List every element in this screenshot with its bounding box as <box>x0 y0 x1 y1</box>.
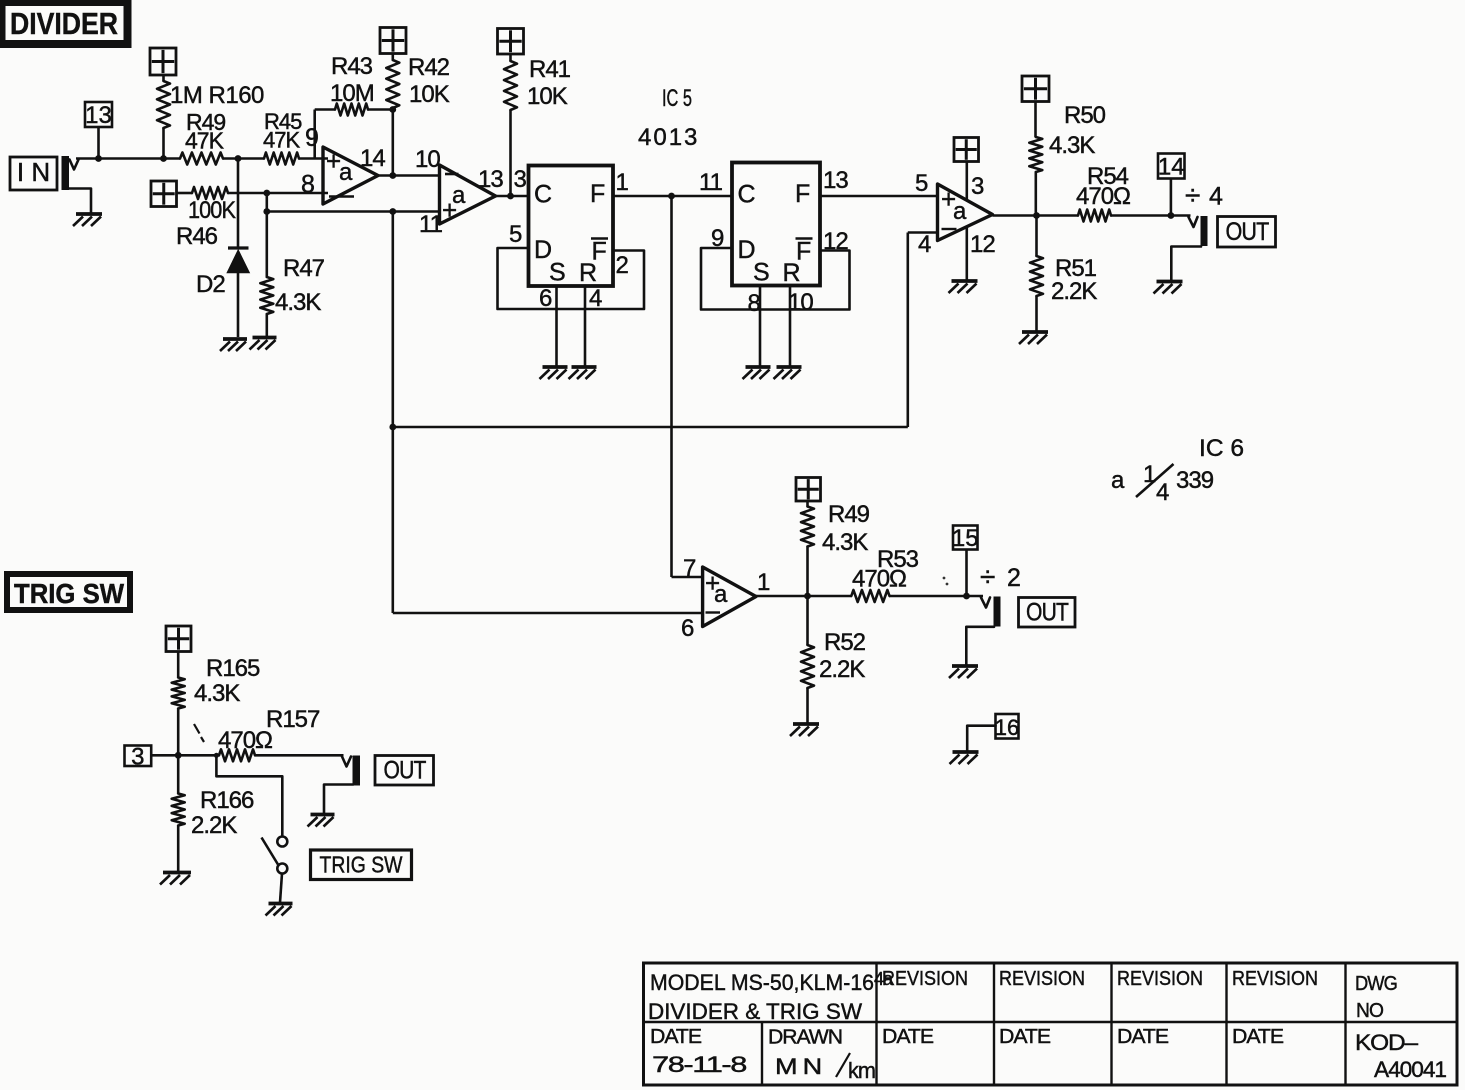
wire (pin3 to node) <box>151 754 219 757</box>
svg-text:S: S <box>753 259 769 287</box>
svg-text:NO: NO <box>1356 999 1383 1022</box>
svg-text:TRIG SW: TRIG SW <box>320 852 403 878</box>
wire (pin 13 stem) <box>97 127 100 159</box>
wire (pin 15 stem) <box>965 550 968 597</box>
wire (+V to R46) <box>177 192 193 195</box>
svg-text:a: a <box>1111 467 1125 494</box>
wire (U3 ground stem) <box>965 227 968 281</box>
resistor R54 470ohm (horizontal) <box>1078 210 1111 222</box>
svg-text:4.3K: 4.3K <box>194 680 240 707</box>
svg-text:KOD–: KOD– <box>1355 1030 1419 1055</box>
svg-text:REVISION: REVISION <box>882 968 968 990</box>
svg-text:4.3K: 4.3K <box>1049 132 1095 159</box>
wire (J3 sleeve to ground) <box>324 785 353 814</box>
svg-text:2.2K: 2.2K <box>819 656 865 683</box>
node label DIVIDER (section title) <box>2 2 128 44</box>
svg-text:F: F <box>795 180 810 208</box>
label R47 <box>275 255 325 316</box>
junction (R43/R42) <box>389 106 396 113</box>
ground (R51) <box>1019 332 1048 344</box>
svg-text:R: R <box>579 259 596 287</box>
label R51 <box>1051 255 1097 305</box>
svg-text:R47: R47 <box>283 255 325 282</box>
svg-text:C: C <box>534 181 552 209</box>
svg-text:10: 10 <box>415 146 440 173</box>
svg-text:15: 15 <box>952 525 979 552</box>
label R166 <box>191 787 254 839</box>
wire (feedback horizontal run) <box>393 426 908 429</box>
wire (R45 to op-amp U1 pin9) <box>299 157 328 160</box>
junction (R50/R51/out node) <box>1033 212 1040 219</box>
svg-text:R: R <box>783 259 800 287</box>
resistor R160 1M (vertical) <box>157 75 170 159</box>
svg-text:47K: 47K <box>185 128 225 154</box>
svg-text:÷: ÷ <box>1185 180 1200 211</box>
resistor R53 470ohm (horizontal) <box>851 590 889 602</box>
svg-text:4: 4 <box>918 231 931 258</box>
ground (IN jack sleeve) <box>73 214 102 226</box>
svg-text:1: 1 <box>616 169 629 196</box>
power +V (R46) <box>151 181 177 207</box>
svg-text:R52: R52 <box>824 629 866 656</box>
node label OUT (trig) <box>375 756 434 786</box>
node 14 (connector pin 14) <box>1158 154 1185 181</box>
junction (feedback tap) <box>389 424 396 431</box>
junction (pin15 node) <box>963 593 970 600</box>
svg-text:TRIG SW: TRIG SW <box>14 578 125 609</box>
wire (R46 to op-amp U1 pin8) <box>228 192 328 195</box>
title block text drawn value <box>775 1053 875 1083</box>
svg-text:REVISION: REVISION <box>1117 968 1203 990</box>
svg-text:÷: ÷ <box>980 561 995 592</box>
svg-text:a: a <box>339 159 353 186</box>
resistor R43 10M (horizontal) <box>335 104 368 116</box>
svg-text:1M R160: 1M R160 <box>170 82 264 109</box>
wire (FF1 S stem) <box>555 286 558 366</box>
label R49 <box>185 109 225 154</box>
diode D2 <box>228 248 250 337</box>
wire (J14 sleeve to ground) <box>1171 247 1201 281</box>
ground (U3 pin12) <box>949 281 978 293</box>
svg-text:R157: R157 <box>266 706 320 733</box>
svg-text:3: 3 <box>131 743 144 770</box>
svg-text:8: 8 <box>301 171 314 199</box>
svg-text:470Ω: 470Ω <box>218 727 272 754</box>
label divide-by-2 <box>980 561 1020 592</box>
svg-text:9: 9 <box>305 124 318 152</box>
wire (FF1 R stem) <box>584 286 587 366</box>
wire (R157 to trig jack) <box>255 754 344 757</box>
svg-text:470Ω: 470Ω <box>1076 183 1130 210</box>
svg-text:14: 14 <box>1158 154 1185 181</box>
junction (F1 node) <box>668 193 675 200</box>
op-amp U3 (comparator a, pins 5/4/3/12) <box>938 184 993 241</box>
svg-text:3: 3 <box>971 173 984 200</box>
wire (U4 out) <box>756 595 851 598</box>
svg-text:a: a <box>953 198 967 225</box>
label R54 470 <box>1076 163 1130 210</box>
node label TRIG SW (switch) <box>311 850 412 880</box>
svg-text:M N: M N <box>775 1054 821 1079</box>
wire (node down to R47) <box>265 193 268 277</box>
junction (pin13 / signal line) <box>95 155 102 162</box>
label R43 10M <box>330 53 374 107</box>
svg-text:2.2K: 2.2K <box>191 812 237 839</box>
node 15 (connector pin 15) <box>952 525 979 552</box>
svg-text:3: 3 <box>514 166 527 193</box>
ground (R166) <box>160 873 191 885</box>
node 3 (connector pin 3) <box>125 743 152 770</box>
label R157 470 <box>218 706 320 754</box>
op-amp U4 (comparator a, pins 7/6/1) <box>703 567 756 627</box>
svg-text:6: 6 <box>681 615 694 642</box>
svg-text:4: 4 <box>1156 479 1169 506</box>
svg-text:F: F <box>590 180 605 208</box>
node label OUT (/2) <box>1019 598 1076 628</box>
wire (switch branch) <box>216 755 282 836</box>
junction (reference/feedback tap) <box>389 208 396 215</box>
svg-text:DATE: DATE <box>999 1025 1050 1048</box>
resistor R49 47K (horizontal) <box>180 153 223 165</box>
ground (J15 sleeve) <box>949 666 978 678</box>
svg-text:DWG: DWG <box>1355 972 1397 995</box>
jack J14 (divider out /4) <box>1189 216 1208 246</box>
svg-text:100K: 100K <box>188 197 236 224</box>
svg-text:11: 11 <box>699 169 723 196</box>
resistor R165 4.3K (vertical) <box>172 652 185 756</box>
wire (FF2 R stem) <box>789 286 792 367</box>
resistor R45 47K (horizontal) <box>264 153 299 165</box>
ground (D2) <box>220 339 247 351</box>
label R50 <box>1049 102 1106 159</box>
label R165 <box>194 655 260 707</box>
flip-flop FF2 (4013 half, pins 11/9/8/10/13/12) <box>732 163 820 288</box>
svg-text:47K: 47K <box>263 128 300 153</box>
wire (U1 pin9 to R43) <box>315 110 335 159</box>
svg-text:DIVIDER & TRIG SW: DIVIDER & TRIG SW <box>648 999 863 1024</box>
wire (reference node down) <box>391 212 394 614</box>
speck artifacts (scan) <box>194 724 204 742</box>
resistor R47 4.3K (vertical) <box>260 277 273 336</box>
ground (pin 16) <box>950 752 979 764</box>
svg-text:2.2K: 2.2K <box>1051 278 1097 305</box>
svg-text:14: 14 <box>360 145 385 172</box>
power +V (U3 pin3) <box>954 138 979 162</box>
wire (pin16 to ground) <box>967 726 995 751</box>
svg-text:R165: R165 <box>206 655 260 682</box>
svg-text:DATE: DATE <box>882 1025 933 1048</box>
svg-text:R43: R43 <box>331 53 373 80</box>
node label OUT (/4) <box>1218 217 1276 248</box>
resistor R157 470ohm (horizontal) <box>219 749 255 761</box>
svg-text:OUT: OUT <box>1026 599 1069 627</box>
svg-text:1: 1 <box>757 569 770 596</box>
svg-text:km: km <box>848 1058 875 1083</box>
flip-flop FF1 (4013 half, pins 3/5/6/4/1/2) <box>529 166 614 288</box>
svg-text:470Ω: 470Ω <box>852 566 906 593</box>
svg-text:1: 1 <box>1143 461 1156 488</box>
ground (FF1 R) <box>569 367 597 379</box>
svg-text:12: 12 <box>970 231 995 258</box>
resistor R52 2.2K (vertical) <box>801 596 814 723</box>
svg-text:5: 5 <box>915 170 928 197</box>
wire (R54 to jack 14) <box>1111 214 1191 217</box>
label R53 470 <box>852 546 919 593</box>
wire (F1 node down to U4 +in) <box>672 196 703 577</box>
title block table (frame and grid) <box>644 963 1458 1085</box>
label R52 <box>819 629 866 683</box>
svg-text:R50: R50 <box>1064 102 1106 129</box>
svg-text:C: C <box>738 181 756 209</box>
switch TRIG SW (SPST) <box>262 837 288 903</box>
svg-text:339: 339 <box>1176 467 1214 494</box>
svg-text:13: 13 <box>478 166 503 193</box>
label IC6 1/4 339 <box>1111 435 1244 506</box>
label R46 100K <box>176 197 236 250</box>
junction (R41/C line) <box>507 193 514 200</box>
wire (U3 out) <box>993 214 1079 217</box>
resistor R46 100K (horizontal) <box>192 187 228 199</box>
svg-text:10: 10 <box>788 289 813 316</box>
label R49 lower <box>822 501 870 556</box>
svg-text:2: 2 <box>1007 564 1020 592</box>
svg-text:D2: D2 <box>196 271 225 298</box>
wire (R43 to R42 node) <box>368 108 393 111</box>
label divide-by-4 <box>1185 180 1223 211</box>
power +V (R165) <box>166 626 191 652</box>
svg-text:10K: 10K <box>527 83 568 110</box>
label IC5 4013 <box>638 85 699 151</box>
wire (pin 14 stem) <box>1170 179 1173 216</box>
svg-text:IC 6: IC 6 <box>1199 435 1244 462</box>
svg-text:10M: 10M <box>330 80 374 107</box>
resistor R51 2.2K (vertical) <box>1030 216 1043 331</box>
svg-text:R49: R49 <box>828 501 870 528</box>
power +V (above R160) <box>150 48 176 75</box>
svg-text:REVISION: REVISION <box>1232 968 1318 990</box>
node 16 (connector pin 16) <box>995 714 1019 740</box>
power +V (R50) <box>1022 76 1049 102</box>
ground (R52) <box>790 724 819 736</box>
op-amp U1 (comparator a, pins 9/8/14) <box>323 146 378 204</box>
wire (FF1 D-Fbar loop) <box>498 248 645 309</box>
speck artifact <box>943 577 949 586</box>
svg-text:10K: 10K <box>409 81 450 108</box>
svg-text:DIVIDER: DIVIDER <box>10 6 118 41</box>
svg-text:I N: I N <box>17 157 50 187</box>
resistor R42 10K (vertical) <box>386 54 399 176</box>
ground (FF2 S) <box>743 367 771 379</box>
junction (R42/U1out) <box>389 172 396 179</box>
title block text DWG NO <box>1355 972 1397 1022</box>
wire (FF2 D-Fbar loop) <box>701 248 850 310</box>
svg-text:DATE: DATE <box>1232 1025 1283 1048</box>
wire (FF1 F out to FF2 C) <box>613 195 732 198</box>
resistor R41 10K (vertical) <box>504 54 517 196</box>
svg-text:A40041: A40041 <box>1374 1057 1447 1082</box>
wire (FF2 F out to U3 +in) <box>820 195 938 198</box>
svg-text:R46: R46 <box>176 223 218 250</box>
label R42 10K <box>408 54 450 108</box>
jack J-IN (input jack) <box>62 156 92 213</box>
svg-text:MODEL MS-50,KLM-16: MODEL MS-50,KLM-16 <box>650 970 874 995</box>
node IN (input label box) <box>10 157 57 190</box>
wire (R49 to R45) <box>223 157 264 160</box>
svg-text:78-11-8: 78-11-8 <box>652 1052 747 1077</box>
ground (R47) <box>250 338 277 350</box>
svg-text:a: a <box>714 581 728 608</box>
junction (reference node) <box>263 208 270 215</box>
resistor R166 2.2K (vertical) <box>172 755 185 871</box>
junction (trig node) <box>175 752 182 759</box>
svg-text:DATE: DATE <box>1117 1025 1168 1048</box>
wire (U1 out to U2 -in) <box>378 174 440 177</box>
svg-text:R42: R42 <box>408 54 450 81</box>
svg-text:D: D <box>738 236 755 264</box>
svg-text:+: + <box>442 195 456 225</box>
resistor R50 4.3K (vertical) <box>1029 102 1042 216</box>
wire (reference run to U4 -in) <box>393 612 703 615</box>
node label TRIG SW (section title) <box>7 574 130 610</box>
wire (U3 -in feedback) <box>908 233 938 428</box>
svg-text:13: 13 <box>823 167 848 194</box>
svg-text:16: 16 <box>995 715 1019 740</box>
ground (switch) <box>266 904 293 916</box>
wire (R53 to jack 15) <box>890 595 984 598</box>
svg-text:4013: 4013 <box>638 124 699 151</box>
ground (FF1 S) <box>540 367 568 379</box>
ground (J3 sleeve) <box>308 815 335 827</box>
svg-text:13: 13 <box>85 102 112 129</box>
svg-text:4: 4 <box>1209 183 1223 211</box>
svg-text:8: 8 <box>748 290 761 317</box>
svg-text:DRAWN: DRAWN <box>768 1026 842 1049</box>
svg-text:R41: R41 <box>529 56 571 83</box>
svg-text:IC 5: IC 5 <box>662 85 692 112</box>
op-amp U2 (comparator a, pins 10/11/13) <box>440 165 496 225</box>
power +V (R49 lower) <box>796 478 821 502</box>
power +V (R42) <box>380 28 406 54</box>
svg-text:5: 5 <box>509 221 522 248</box>
svg-text:7: 7 <box>683 555 696 582</box>
junction (R160 / signal line) <box>160 155 167 162</box>
label R45 <box>263 109 302 153</box>
jack J15 (divider out /2) <box>981 597 1001 627</box>
svg-text:R166: R166 <box>200 787 254 814</box>
junction (R49/R45/D2 node) <box>235 155 242 162</box>
svg-text:OUT: OUT <box>384 757 427 785</box>
svg-text:REVISION: REVISION <box>999 968 1085 990</box>
junction (pin14 node) <box>1168 212 1175 219</box>
node 13 (connector pin 13) <box>85 102 112 129</box>
svg-text:11: 11 <box>419 211 443 238</box>
svg-text:2: 2 <box>616 252 629 279</box>
wire (U3 power stem) <box>965 162 968 200</box>
wire (IN jack tip to node A) <box>76 157 180 160</box>
wire (node A down to D2) <box>237 159 240 248</box>
resistor R49 4.3K (vertical, lower) <box>801 501 814 596</box>
wire (FF2 S stem) <box>759 286 762 367</box>
label R41 10K <box>527 56 571 110</box>
junction (R49/R52/out node) <box>804 593 811 600</box>
ground (FF2 R) <box>774 367 802 379</box>
junction (switch branch tap) <box>214 753 219 758</box>
svg-text:S: S <box>549 259 565 287</box>
junction (R46/R47 node) <box>263 190 270 197</box>
wire (reference line to U2 pin11) <box>267 210 440 213</box>
svg-text:4.3K: 4.3K <box>275 289 321 316</box>
power +V (R41) <box>498 29 524 55</box>
ground (J14 sleeve) <box>1154 282 1183 294</box>
jack J3 (trig out) <box>342 756 360 786</box>
svg-text:DATE: DATE <box>650 1025 701 1048</box>
wire (U2 out to FF1 C) <box>496 195 529 198</box>
svg-text:OUT: OUT <box>1226 218 1270 246</box>
svg-text:4.3K: 4.3K <box>822 529 868 556</box>
wire (J15 sleeve to ground) <box>966 627 994 665</box>
